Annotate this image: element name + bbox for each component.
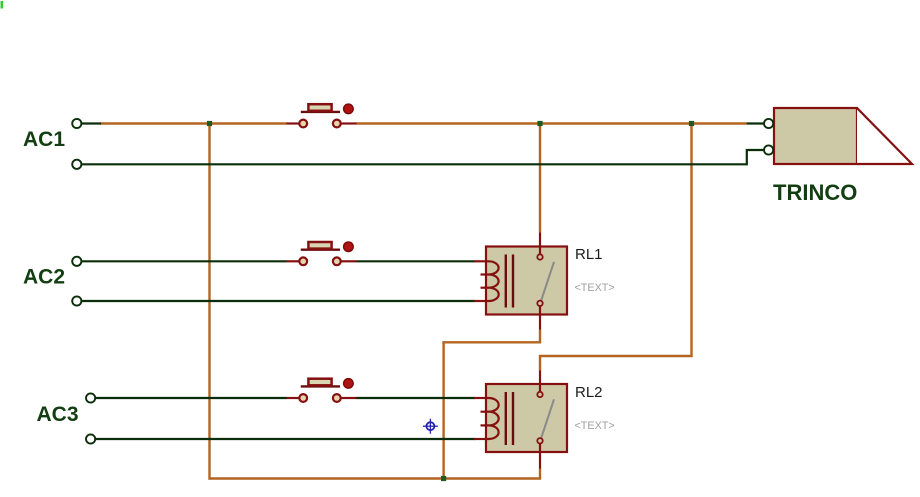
svg-text:RL1: RL1 [575,246,603,263]
push button SW1 [287,104,357,127]
svg-text:AC1: AC1 [23,128,65,151]
svg-text:<TEXT>: <TEXT> [575,282,615,294]
label RL2 TEXT placeholder [575,420,615,432]
selection mark top-left [1,1,4,9]
wire W13 green AC2 row1 left [81,260,287,262]
TRINCO pin2 circle [764,145,773,154]
wire W10 green AC1 terminal1 stub [81,122,101,124]
wire W12 green TRINCO pin1 stub [747,122,765,124]
wire W17 green AC3 row1 right to RL2 coil [356,397,475,399]
wire W2 orange AC1 row1 right segment [356,122,747,124]
wire W14 green AC2 row1 right to RL1 coil [356,260,475,262]
terminal AC2 pin2 [72,296,81,305]
wire W8 orange RL1 top pin drop x=540 [539,124,541,233]
svg-text:RL2: RL2 [575,384,603,401]
relay RL1 [474,233,567,330]
wire W4 orange bottom horizontal y=478.5 [210,477,541,479]
wire W9 orange RL2 top feed from AC1 [540,124,692,371]
relay RL2 [474,371,567,469]
origin crosshair marker [423,419,438,434]
label RL1 [575,246,603,263]
TRINCO pin1 circle [764,119,773,128]
wire W1 orange AC1 row1 left segment [100,122,287,124]
svg-text:AC2: AC2 [23,266,65,289]
junction J1 at 209.5,123.5 [207,121,212,126]
wire W16 green AC3 row1 left [95,397,287,399]
wire W7 orange horizontal y=342.3 RL1 bottom link [442,330,540,343]
svg-text:TRINCO: TRINCO [773,180,857,205]
label AC3 [37,403,79,426]
wire W18 green AC3 row2 to RL2 coil [95,438,475,440]
terminal AC1 pin2 [72,160,81,169]
label AC2 [23,266,65,289]
wire W15 green AC2 row2 to RL1 coil [81,300,475,302]
label TRINCO [773,180,857,205]
push button SW3 [287,379,357,402]
wire W5 orange RL2 bottom pin riser [539,469,541,480]
junction J3 at 691.5,123.5 [689,121,694,126]
terminal AC1 pin1 [72,119,81,128]
junction J2 at 540,123.5 [537,121,542,126]
label RL1 TEXT placeholder [575,282,615,294]
terminal AC3 pin2 [86,434,95,443]
wire W6 orange vertical x=443.6 [442,341,444,479]
wire W11 green AC1 row2 to TRINCO with jog [81,150,765,164]
svg-text:AC3: AC3 [37,403,79,426]
push button SW2 [287,242,357,265]
svg-text:<TEXT>: <TEXT> [575,420,615,432]
label AC1 [23,128,65,151]
wire W3 orange vertical left bus x=209.5 [210,124,211,479]
junction J4 at 443.6,478.5 [441,476,446,481]
terminal AC3 pin1 [86,393,95,402]
label RL2 [575,384,603,401]
terminal AC2 pin1 [72,257,81,266]
latch TRINCO body [774,108,912,164]
